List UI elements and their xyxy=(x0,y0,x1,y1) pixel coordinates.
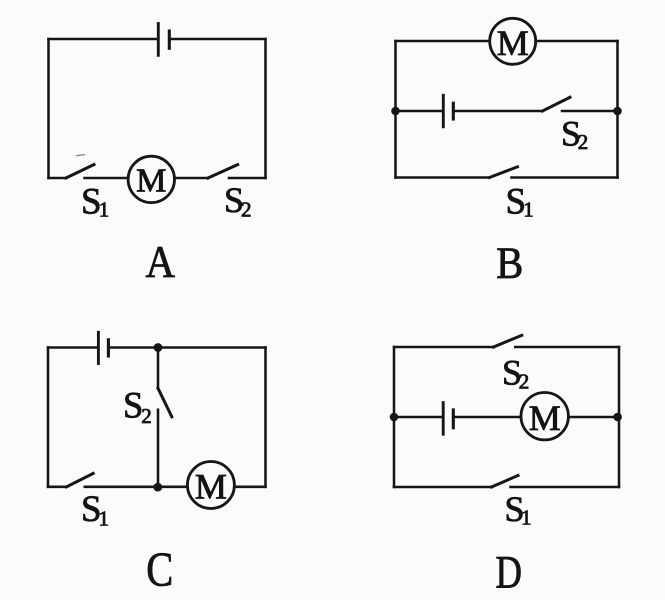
svg-text:C: C xyxy=(146,542,173,597)
svg-text:A: A xyxy=(146,237,176,287)
svg-text:D: D xyxy=(496,547,523,598)
svg-text:2: 2 xyxy=(141,404,152,428)
svg-text:2: 2 xyxy=(241,198,252,222)
svg-text:1: 1 xyxy=(523,198,534,222)
svg-text:M: M xyxy=(195,467,227,507)
svg-text:M: M xyxy=(497,23,529,63)
svg-text:2: 2 xyxy=(578,130,589,154)
svg-text:1: 1 xyxy=(99,506,110,530)
svg-text:B: B xyxy=(496,239,523,288)
svg-text:1: 1 xyxy=(521,506,532,530)
svg-text:1: 1 xyxy=(99,198,110,222)
svg-text:2: 2 xyxy=(519,370,530,394)
svg-text:M: M xyxy=(136,162,166,199)
svg-text:S: S xyxy=(123,385,143,426)
svg-text:M: M xyxy=(529,398,561,438)
